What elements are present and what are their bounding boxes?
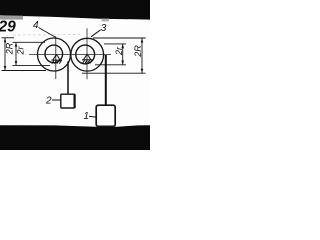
weight 2 box xyxy=(61,94,75,108)
svg-text:2r: 2r xyxy=(16,46,26,56)
gray smudge left under band xyxy=(0,16,23,20)
leader line label 4 xyxy=(39,28,57,38)
arrowheads right inner xyxy=(121,44,124,48)
svg-text:3: 3 xyxy=(101,23,107,34)
faint scan streak xyxy=(13,34,80,37)
svg-text:2R: 2R xyxy=(133,45,143,58)
rope to weight 2 xyxy=(67,62,69,95)
top black scan band xyxy=(0,0,150,20)
pulley 4 outer circle xyxy=(38,38,71,71)
arrowheads right outer xyxy=(141,38,144,43)
left outer dimension 2R xyxy=(2,38,47,71)
right outer dimension 2R xyxy=(82,38,146,73)
weight 2 thick right edge xyxy=(73,94,75,108)
rope to weight 1 xyxy=(105,55,107,106)
arrowheads left outer xyxy=(4,38,7,43)
arrowheads left inner xyxy=(15,42,18,46)
left inner dimension 2r xyxy=(13,42,51,65)
svg-text:29: 29 xyxy=(0,18,16,35)
centerline vertical pulley 4 xyxy=(55,36,57,79)
pulley 4 inner circle xyxy=(45,45,63,63)
svg-text:2r: 2r xyxy=(114,46,124,56)
centerline horizontal xyxy=(29,54,111,56)
leader line label 1 xyxy=(89,116,97,117)
gray smudge above label 3 xyxy=(102,19,110,22)
svg-text:2: 2 xyxy=(45,96,52,107)
pulley 3 outer circle xyxy=(71,38,104,71)
leader line label 2 xyxy=(52,99,61,101)
svg-text:1: 1 xyxy=(84,111,90,122)
svg-text:2R: 2R xyxy=(5,42,15,55)
pivot support pulley 4 xyxy=(51,54,61,63)
pivot support pulley 3 xyxy=(82,54,92,63)
svg-text:4: 4 xyxy=(33,20,39,31)
weight 1 box xyxy=(96,105,115,126)
bottom black scan band xyxy=(0,125,150,150)
centerline vertical pulley 3 xyxy=(86,28,88,79)
leader line label 3 xyxy=(91,30,101,37)
pulley 3 inner circle xyxy=(76,45,95,64)
paper background xyxy=(0,0,150,150)
right inner dimension 2r xyxy=(95,44,126,65)
